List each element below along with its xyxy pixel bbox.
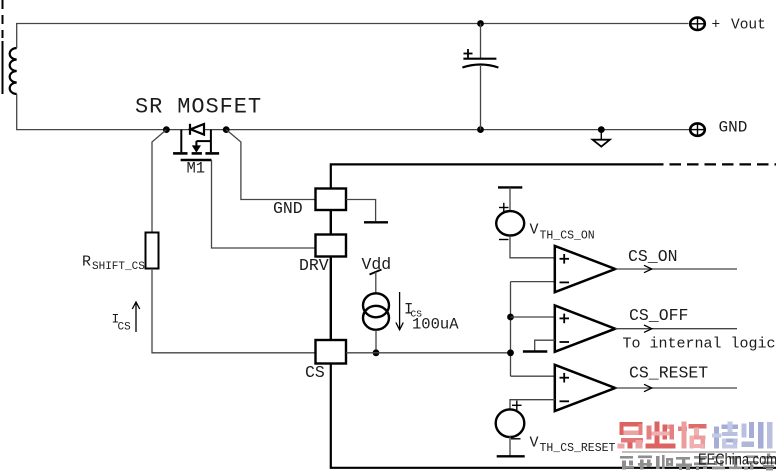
- node: bus comp2 plus: [507, 314, 514, 321]
- ground at comp2 minus: [523, 340, 555, 351]
- wire: comp3 minus to reset source: [510, 400, 555, 409]
- svg-text:To internal logic: To internal logic: [623, 336, 776, 353]
- node: gnd arrow junction: [598, 126, 605, 133]
- svg-text:SR MOSFET: SR MOSFET: [135, 95, 262, 120]
- svg-text:DRV: DRV: [299, 256, 329, 275]
- wire: current source to CS node: [375, 330, 377, 353]
- wire: comparator input bus: [510, 282, 512, 377]
- wire: solid core line beside inductor: [2, 41, 4, 94]
- terminal +Vout: [690, 18, 705, 30]
- svg-text:TH_CS_ON: TH_CS_ON: [540, 230, 595, 243]
- IC pin box CS: [316, 340, 347, 364]
- body diode of M1: [190, 124, 204, 135]
- svg-text:GND: GND: [273, 199, 303, 218]
- arrow of M1 body: [192, 145, 201, 152]
- svg-text:V: V: [530, 435, 539, 452]
- wire: dashed winding continuation top-left: [2, 0, 4, 38]
- watermark gray tagline glyphs: [620, 454, 775, 471]
- arrowhead comp3 output: [644, 384, 652, 391]
- wire: comp2 output: [615, 328, 737, 330]
- svg-text:Vout: Vout: [731, 18, 766, 34]
- watermark logo glyph 3 (red): [678, 422, 707, 449]
- polarity marks V_TH_CS_RESET: [511, 401, 522, 439]
- source V_TH_CS_ON: [496, 211, 524, 235]
- svg-text:CS: CS: [305, 363, 325, 382]
- polarity marks V_TH_CS_ON: [499, 203, 509, 240]
- wire: comp1 output: [615, 268, 737, 270]
- arrow beside current source: [396, 292, 403, 330]
- op-amp U2 (CS_OFF comparator): [555, 306, 615, 352]
- op-amp U3 (CS_RESET comparator): [555, 365, 615, 411]
- op-amp U1 (CS_ON comparator): [555, 246, 615, 292]
- wire: CS box to bus: [346, 352, 511, 354]
- watermark logo glyph 5 (blue): [742, 422, 773, 449]
- wire: bar to source: [509, 187, 511, 210]
- ground at V_TH_CS_RESET: [497, 436, 525, 456]
- svg-text:M1: M1: [187, 160, 206, 178]
- V_TH_CS_ON rail bar: [498, 186, 522, 188]
- wire: bus to comp2 plus: [511, 316, 555, 318]
- svg-text:TH_CS_RESET: TH_CS_RESET: [540, 442, 616, 455]
- wire: drain diagonal to resistor branch: [152, 130, 166, 233]
- svg-text:R: R: [82, 254, 91, 271]
- svg-text:+: +: [712, 18, 721, 34]
- node: cap bottom: [477, 126, 484, 133]
- node: source junction: [223, 126, 230, 133]
- wire: DRV box to CS box: [330, 257, 332, 341]
- svg-text:EEChina.com: EEChina.com: [698, 452, 776, 469]
- wire: Vdd to current source: [375, 272, 377, 294]
- wire: bus to comp1 minus: [511, 281, 555, 283]
- svg-text:GND: GND: [719, 119, 748, 137]
- svg-text:SHIFT_CS: SHIFT_CS: [92, 261, 145, 273]
- node: current source on CS line: [373, 349, 380, 356]
- IC pin box GND: [316, 189, 347, 211]
- wire: IC top boundary with dashed end: [331, 164, 652, 188]
- svg-text:CS: CS: [118, 322, 132, 334]
- wire: CS box down to bottom boundary: [331, 364, 776, 468]
- ground at GND pin: [346, 200, 388, 223]
- inductor L (transformer secondary winding): [10, 48, 17, 94]
- wire: source to comp1 plus: [510, 236, 555, 258]
- wire: gate to DRV pin: [212, 160, 316, 248]
- current source I_CS 100uA (two circles): [363, 293, 389, 330]
- wire: GND box to DRV box: [330, 210, 332, 235]
- wire: resistor to CS line: [152, 269, 316, 353]
- wire: top rail: [17, 24, 689, 49]
- Vdd rail tick: [370, 270, 382, 275]
- wire: bottom rail: [17, 94, 690, 130]
- svg-text:CS_OFF: CS_OFF: [629, 306, 688, 325]
- IC pin box DRV: [316, 235, 347, 257]
- wire: bus to comp3 plus: [511, 375, 555, 377]
- svg-text:CS_RESET: CS_RESET: [629, 364, 708, 383]
- node: drain junction: [163, 126, 170, 133]
- node: cap top: [477, 20, 484, 27]
- svg-text:100uA: 100uA: [412, 316, 459, 334]
- svg-text:V: V: [530, 222, 539, 239]
- current direction arrow I_CS: [132, 302, 139, 332]
- ground arrow on bottom rail: [593, 130, 610, 147]
- source V_TH_CS_RESET: [496, 409, 525, 437]
- wire: comp3 output: [615, 387, 737, 389]
- arrowhead comp1 output: [644, 265, 652, 272]
- watermark underline: [622, 451, 776, 453]
- svg-text:CS_ON: CS_ON: [628, 247, 678, 266]
- terminal GND: [690, 123, 705, 135]
- resistor R_SHIFT_CS: [146, 233, 159, 269]
- node: bus CS line: [507, 349, 514, 356]
- arrowhead comp2 output: [644, 325, 652, 332]
- wire: source diagonal to GND pin branch: [226, 130, 315, 200]
- watermark logo glyph 4 (blue): [712, 422, 738, 449]
- transistor M1 (SR MOSFET): [173, 130, 219, 160]
- watermark logo glyph 1 (red): [618, 422, 644, 449]
- watermark logo glyph 2 (red): [646, 422, 676, 449]
- capacitor C1 (output cap): [462, 24, 498, 130]
